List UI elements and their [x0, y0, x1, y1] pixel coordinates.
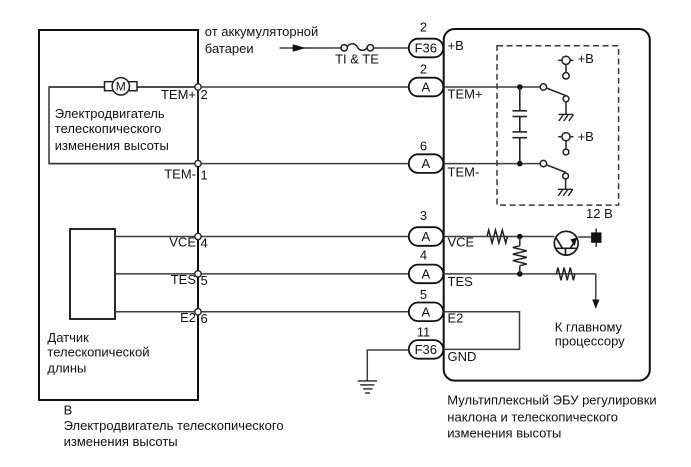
wire GND external [367, 350, 409, 381]
svg-text:TEM+: TEM+ [448, 87, 483, 102]
junction dot VCE [517, 234, 523, 240]
wire VCE [115, 236, 409, 238]
motor box (inner) [49, 87, 198, 164]
wire E2 [115, 311, 409, 313]
svg-text:TEM+: TEM+ [161, 87, 196, 102]
connector F36 pin GND [409, 340, 444, 359]
relay switch SW2 (TEM-) [540, 160, 568, 189]
motor M (telescopic height motor) [105, 78, 138, 95]
svg-text:+B: +B [578, 129, 594, 144]
arrow on battery wire [293, 44, 306, 51]
svg-text:VCE: VCE [448, 234, 475, 249]
capacitor C2 [513, 132, 528, 164]
dashed relay block [497, 46, 619, 205]
node VCE on left box edge [195, 233, 201, 239]
svg-text:К главному: К главному [555, 319, 623, 334]
wire E2 to GND loop inside ECU [444, 312, 520, 350]
svg-text:M: M [116, 80, 126, 94]
svg-text:наклона и телескопического: наклона и телескопического [447, 410, 618, 425]
svg-text:изменения высоты: изменения высоты [55, 138, 169, 153]
svg-text:TEM-: TEM- [448, 164, 480, 179]
svg-text:A: A [421, 80, 430, 95]
svg-text:Электродвигатель телескопическ: Электродвигатель телескопического [64, 418, 284, 433]
ECU box (rounded) [444, 29, 650, 381]
junction dot TEM+ / capacitor top [517, 84, 523, 90]
svg-text:телескопической: телескопической [47, 345, 149, 360]
transistor Q1 [554, 231, 578, 255]
svg-text:F36: F36 [415, 342, 437, 357]
node TES on left box edge [195, 271, 201, 277]
connector A pin VCE [409, 227, 444, 246]
svg-text:VCE: VCE [169, 234, 196, 249]
svg-text:Датчик: Датчик [47, 330, 89, 345]
resistor R3 (TES horizontal) [556, 268, 574, 281]
transistor emitter arrowhead [570, 238, 577, 247]
wire TEM+ inside ECU [444, 86, 541, 88]
+B terminal of SW2 [558, 133, 573, 155]
junction dot TEM- / capacitor bottom [517, 161, 523, 167]
svg-text:F36: F36 [415, 41, 437, 56]
svg-text:2: 2 [420, 61, 427, 76]
12V terminal square [591, 232, 601, 242]
sensor box (telescopic length sensor) [70, 229, 115, 319]
svg-text:4: 4 [420, 248, 427, 263]
chassis ground SW1 [559, 114, 574, 121]
connector A pin E2 [409, 303, 444, 322]
node E2 on left box edge [195, 309, 201, 315]
svg-text:длины: длины [47, 361, 86, 376]
svg-text:E2: E2 [180, 310, 196, 325]
svg-text:5: 5 [201, 273, 208, 288]
arrow to main processor [592, 300, 599, 309]
svg-text:2: 2 [201, 87, 208, 102]
wire TEM- from motor box to ECU connector A [49, 163, 409, 165]
svg-text:TEM-: TEM- [164, 167, 196, 182]
connector A pin TEM+ [409, 78, 444, 97]
svg-text:телескопического: телескопического [55, 121, 162, 136]
svg-text:Мультиплексный ЭБУ регулировки: Мультиплексный ЭБУ регулировки [447, 393, 656, 408]
earth ground [358, 381, 377, 393]
svg-text:A: A [421, 304, 430, 319]
resistor R1 (VCE horizontal) [487, 230, 507, 243]
wire VCE inside ECU [444, 236, 555, 238]
svg-text:от аккумуляторной: от аккумуляторной [205, 24, 318, 39]
wire TES [115, 273, 409, 275]
wire fuse to F36 [374, 47, 409, 49]
svg-text:A: A [421, 156, 430, 171]
svg-text:процессору: процессору [555, 333, 625, 348]
+B terminal of SW1 [558, 56, 573, 79]
svg-text:6: 6 [420, 138, 427, 153]
connector A pin TEM- [409, 154, 444, 173]
left device box [39, 30, 198, 400]
wire +B from battery to fuse [280, 47, 341, 49]
12V terminal stub [595, 228, 597, 247]
wire TES to main processor arrow [595, 274, 597, 300]
svg-text:B: B [64, 402, 73, 417]
connector F36 pin +B [409, 39, 444, 58]
svg-text:A: A [421, 267, 430, 282]
node TEM- on left box edge [195, 160, 201, 166]
capacitor C1 [513, 87, 528, 132]
wire TEM+ from motor box to ECU connector A [49, 86, 409, 88]
fuse TI & TE [341, 44, 374, 51]
svg-text:A: A [421, 229, 430, 244]
svg-text:5: 5 [420, 287, 427, 302]
svg-text:12 В: 12 В [586, 206, 613, 221]
node TEM+ on left box edge [195, 84, 201, 90]
junction dot TES [517, 271, 523, 277]
wire TEM- inside ECU [444, 163, 541, 165]
svg-text:TES: TES [171, 272, 197, 287]
resistor R2 (vertical between VCE and TES) [513, 237, 527, 274]
svg-text:изменения высоты: изменения высоты [64, 434, 178, 449]
svg-text:изменения высоты: изменения высоты [447, 425, 561, 440]
svg-text:Электродвигатель: Электродвигатель [55, 106, 165, 121]
svg-text:батареи: батареи [205, 41, 254, 56]
connector A pin TES [409, 265, 444, 284]
svg-text:GND: GND [448, 349, 477, 364]
svg-text:+B: +B [448, 38, 464, 53]
svg-text:TES: TES [448, 274, 474, 289]
svg-text:1: 1 [201, 168, 208, 183]
wire TES inside ECU [444, 273, 596, 275]
relay switch SW1 (TEM+) [540, 84, 569, 115]
svg-text:TI & TE: TI & TE [335, 52, 379, 67]
svg-text:3: 3 [420, 208, 427, 223]
svg-text:2: 2 [420, 20, 427, 35]
chassis ground SW2 [558, 189, 573, 196]
svg-text:+B: +B [578, 51, 594, 66]
svg-text:11: 11 [417, 324, 431, 339]
svg-text:E2: E2 [448, 311, 464, 326]
wire transistor to 12V terminal [578, 236, 591, 238]
